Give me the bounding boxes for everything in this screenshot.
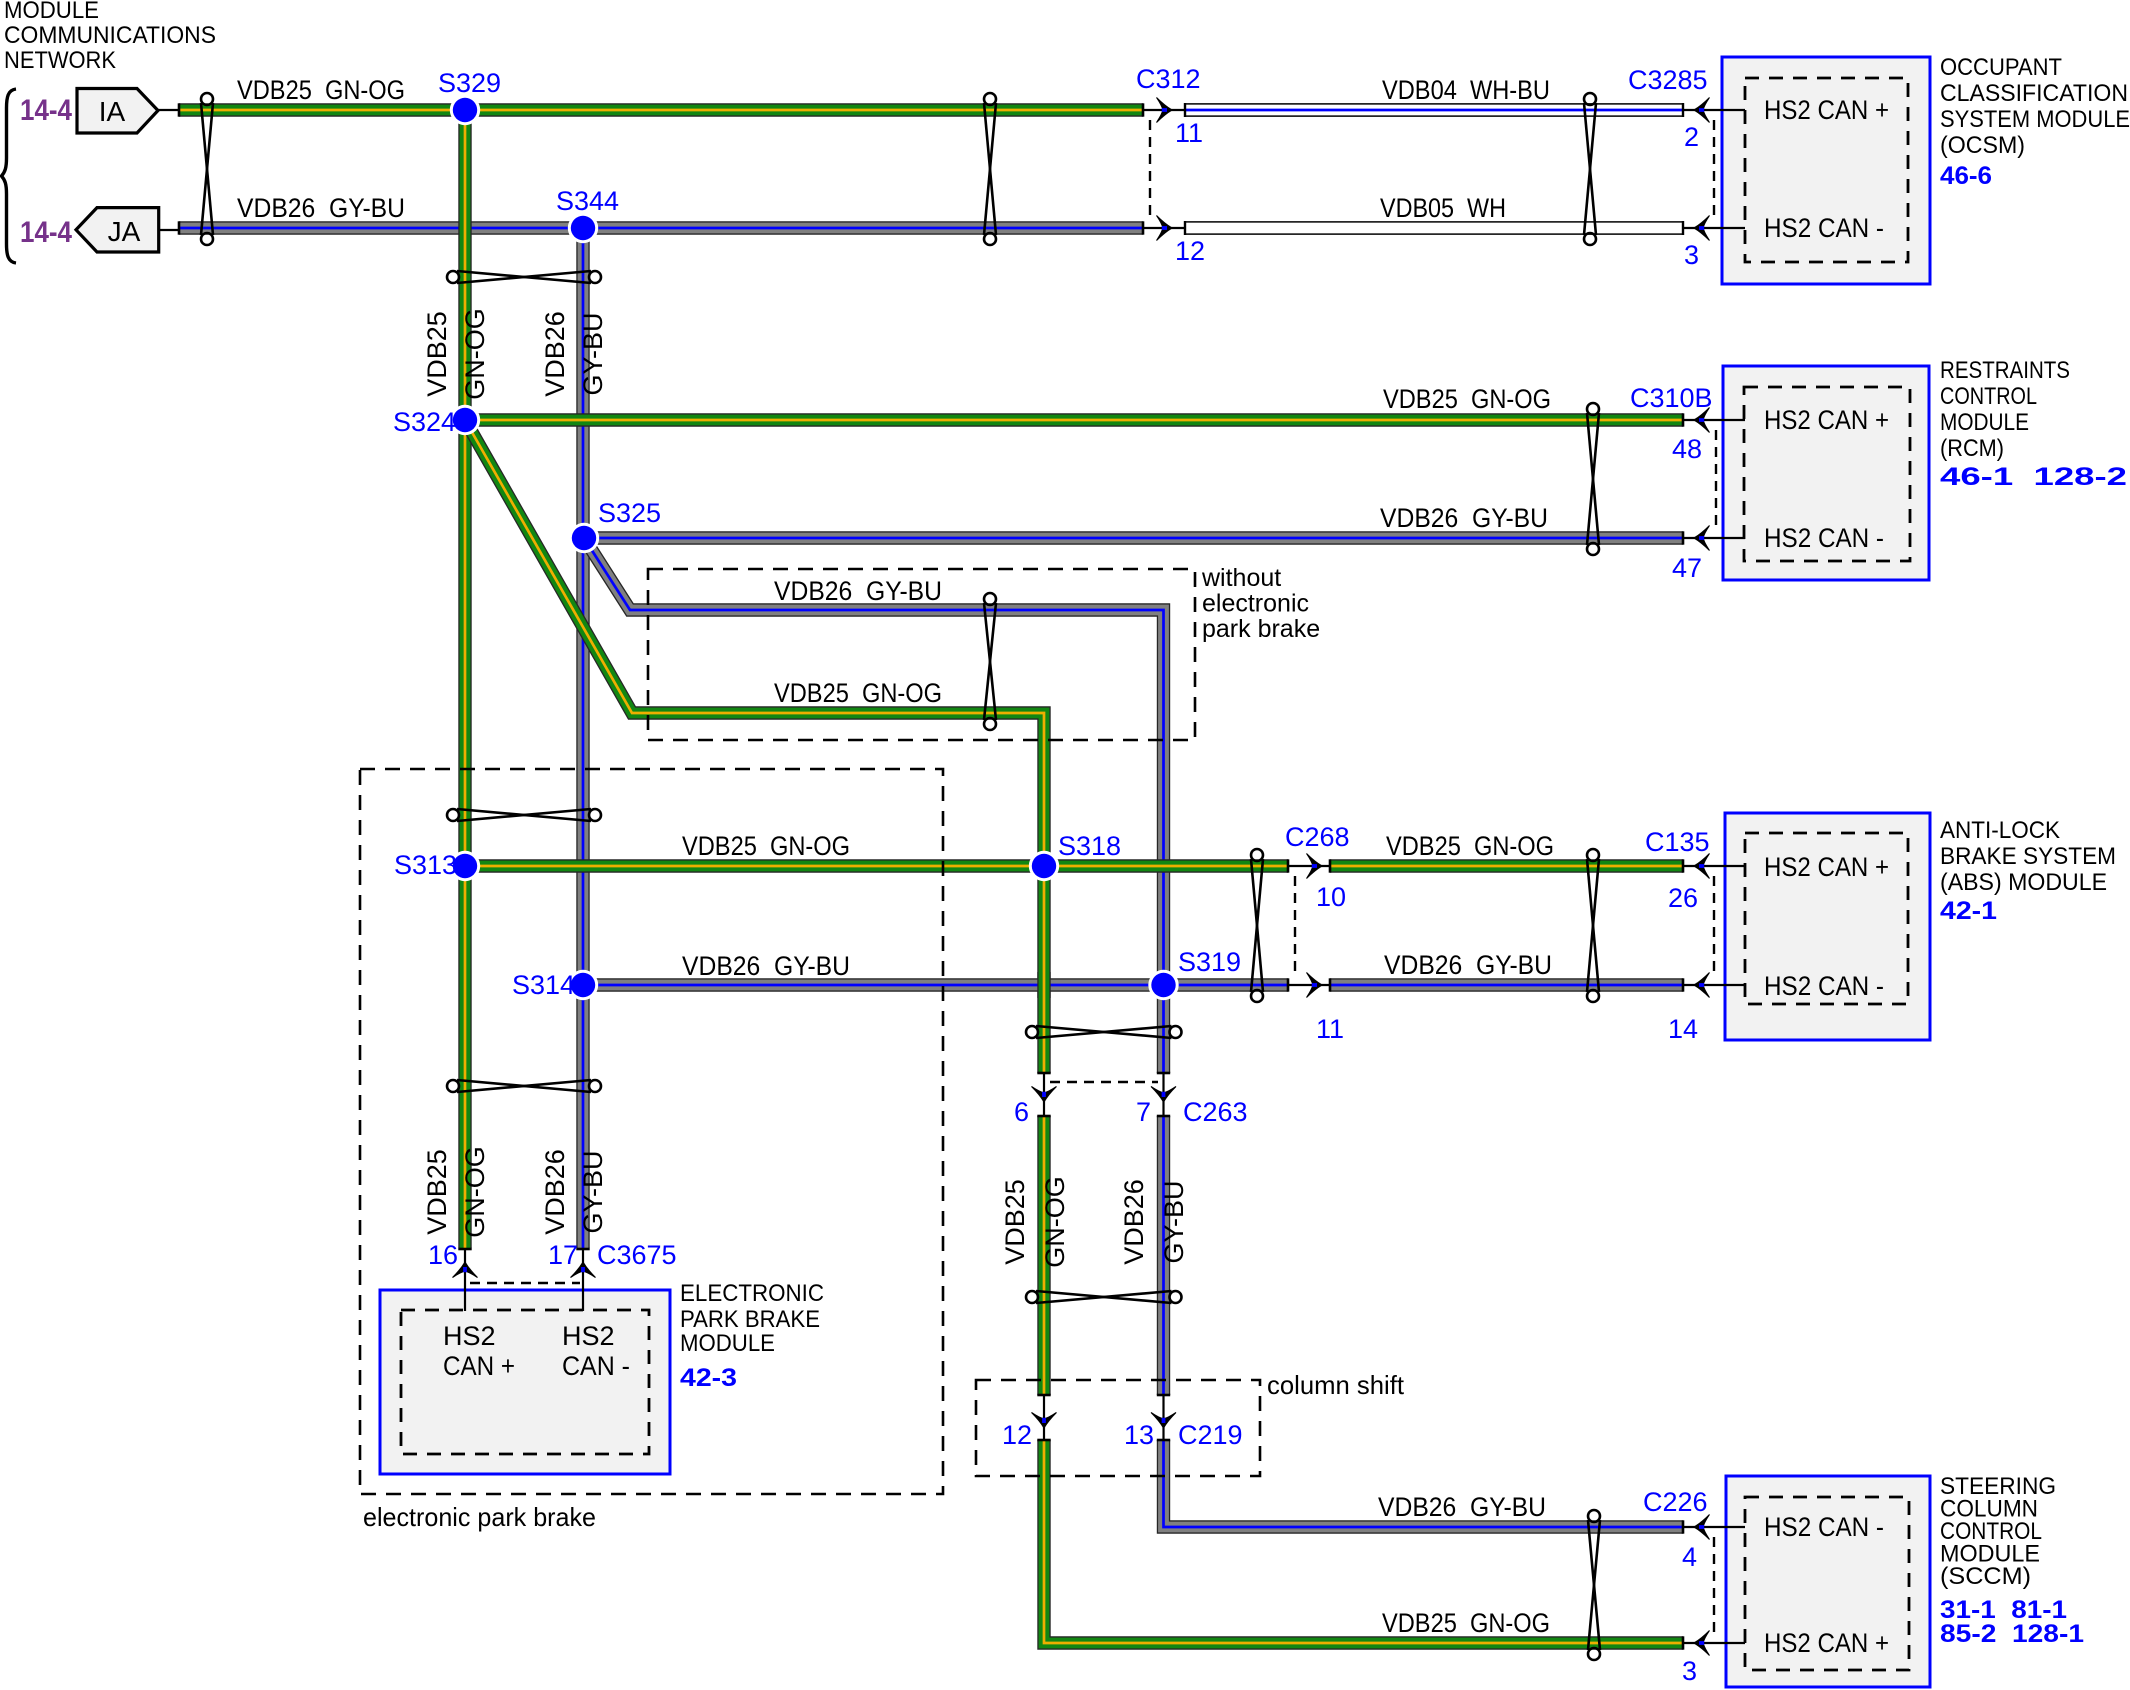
svg-text:VDB26 GY-BU: VDB26 GY-BU	[237, 193, 405, 223]
svg-text:MODULE: MODULE	[4, 0, 99, 24]
connector C263 dashed line	[1050, 1081, 1158, 1083]
connector C219 stub pin13	[1162, 1395, 1164, 1440]
svg-text:GN-OG: GN-OG	[460, 308, 490, 400]
svg-text:S325: S325	[598, 498, 661, 528]
page ref 14-4 (IA)	[20, 94, 72, 127]
pin 17 C3675	[548, 1240, 578, 1270]
label C310B	[1630, 383, 1713, 413]
wire VDB25 GN-OG vertical S329-pin16	[458, 110, 471, 1248]
label HS2 CAN - OCSM	[1764, 213, 1884, 243]
label VDB25 GN-OG RCM row	[1383, 384, 1551, 414]
svg-text:VDB25 GN-OG: VDB25 GN-OG	[1386, 831, 1554, 861]
dashed box column shift	[976, 1380, 1260, 1476]
label HS2 CAN + ABS	[1764, 852, 1889, 882]
label C263	[1183, 1097, 1248, 1127]
module ABS box	[1725, 813, 1930, 1040]
svg-text:HS2 CAN -: HS2 CAN -	[1764, 971, 1884, 1001]
svg-text:2: 2	[1684, 122, 1699, 152]
svg-text:S318: S318	[1058, 831, 1121, 861]
connector C268 arrow pin11	[1307, 973, 1323, 998]
svg-text:VDB26: VDB26	[540, 311, 570, 397]
label STEERING COLUMN CONTROL MODULE (SCCM)	[1940, 1473, 2056, 1590]
page ref 42-1	[1940, 897, 1997, 925]
label VDB26 GY-BU without-epb	[774, 576, 942, 606]
svg-text:VDB25: VDB25	[422, 1149, 452, 1235]
page ref 42-3	[680, 1364, 737, 1392]
svg-text:12: 12	[1002, 1420, 1032, 1450]
svg-text:C135: C135	[1645, 827, 1710, 857]
connector C3675 arrow pin17	[571, 1262, 596, 1278]
connector flag IA	[77, 89, 158, 134]
module EPB box	[380, 1290, 670, 1474]
svg-text:3: 3	[1682, 1656, 1697, 1686]
svg-text:11: 11	[1175, 118, 1203, 148]
label VDB25 GN-OG ABS row	[1386, 831, 1554, 861]
label VDB25 vertical top	[422, 311, 452, 397]
label VDB25 vertical mid	[1000, 1179, 1030, 1265]
connector C310B stub pin47	[1683, 537, 1745, 539]
connector C219 stub pin12	[1043, 1395, 1045, 1440]
connector C310B arrow pin48	[1694, 408, 1710, 433]
pin 14 C135	[1668, 1014, 1698, 1044]
connector C3285 dashed line	[1713, 120, 1715, 218]
wire VDB25 GN-OG crossing patch at S319 row	[1037, 972, 1050, 998]
connector C268 stub pin11	[1288, 984, 1330, 986]
label GN-OG vertical mid	[1040, 1176, 1070, 1268]
svg-text:GY-BU: GY-BU	[578, 312, 608, 395]
label VDB26 GY-BU RCM row	[1380, 503, 1548, 533]
svg-text:12: 12	[1175, 236, 1205, 266]
svg-text:17: 17	[548, 1240, 578, 1270]
svg-text:VDB26 GY-BU: VDB26 GY-BU	[774, 576, 942, 606]
svg-text:SYSTEM MODULE: SYSTEM MODULE	[1940, 106, 2130, 133]
svg-text:HS2 CAN -: HS2 CAN -	[1764, 213, 1884, 243]
label C268	[1285, 822, 1350, 852]
twisted pair VDB04/VDB05	[1584, 93, 1596, 245]
page ref 14-4 (JA)	[20, 216, 72, 249]
svg-text:C312: C312	[1136, 64, 1201, 94]
label C135	[1645, 827, 1710, 857]
svg-text:BRAKE SYSTEM: BRAKE SYSTEM	[1940, 843, 2116, 870]
label VDB25 GN-OG row1	[237, 75, 405, 105]
svg-text:S314: S314	[512, 970, 575, 1000]
connector C219 arrow pin12	[1032, 1413, 1057, 1429]
svg-text:VDB25: VDB25	[1000, 1179, 1030, 1265]
svg-text:42-1: 42-1	[1940, 897, 1997, 925]
connector C3285 stub pin2	[1683, 109, 1745, 111]
svg-text:VDB04 WH-BU: VDB04 WH-BU	[1382, 75, 1550, 105]
page ref 31-1 81-1	[1940, 1596, 2067, 1624]
wire VDB26 GY-BU C219 to SCCM	[1164, 1440, 1684, 1527]
svg-text:7: 7	[1136, 1097, 1151, 1127]
svg-text:10: 10	[1316, 882, 1346, 912]
svg-text:C263: C263	[1183, 1097, 1248, 1127]
twisted pair epb verticals upper	[447, 809, 601, 821]
connector C263 stub pin7	[1162, 1073, 1164, 1116]
connector C263 stub pin6	[1043, 1073, 1045, 1116]
svg-text:VDB26 GY-BU: VDB26 GY-BU	[1380, 503, 1548, 533]
svg-text:C268: C268	[1285, 822, 1350, 852]
svg-text:NETWORK: NETWORK	[4, 47, 116, 74]
label GY-BU vertical top	[578, 312, 608, 395]
svg-text:park brake: park brake	[1202, 615, 1320, 643]
pin 6 C263	[1014, 1097, 1029, 1127]
connector C268 arrow pin10	[1307, 854, 1323, 879]
page ref 46-6	[1940, 162, 1992, 190]
svg-text:14: 14	[1668, 1014, 1698, 1044]
connector C135 arrow pin14	[1694, 973, 1710, 998]
svg-text:VDB05 WH: VDB05 WH	[1380, 193, 1506, 223]
svg-text:13: 13	[1124, 1420, 1154, 1450]
svg-text:ANTI-LOCK: ANTI-LOCK	[1940, 817, 2060, 844]
connector flag JA	[76, 208, 159, 252]
splice S318	[1029, 831, 1121, 881]
label VDB04 WH-BU	[1382, 75, 1550, 105]
svg-text:MODULE: MODULE	[680, 1330, 775, 1357]
label HS2 CAN + OCSM	[1764, 95, 1889, 125]
twisted pair IA/JA	[201, 93, 213, 245]
wire VDB26 GY-BU S314 row after C268	[1330, 978, 1683, 991]
label ANTI-LOCK BRAKE SYSTEM (ABS) MODULE	[1940, 817, 2116, 896]
svg-text:S344: S344	[556, 186, 619, 216]
connector C310B dashed line	[1715, 430, 1717, 528]
svg-text:6: 6	[1014, 1097, 1029, 1127]
svg-text:VDB25 GN-OG: VDB25 GN-OG	[1382, 1608, 1550, 1638]
svg-text:42-3: 42-3	[680, 1364, 737, 1392]
label C226	[1643, 1487, 1708, 1517]
label VDB25 vertical epb	[422, 1149, 452, 1235]
wire VDB26 GY-BU S325 branch (without epb)	[584, 538, 1164, 1073]
svg-text:CLASSIFICATION: CLASSIFICATION	[1940, 80, 2128, 107]
svg-text:VDB25: VDB25	[422, 311, 452, 397]
module OCSM box	[1722, 57, 1930, 284]
twisted pair SCCM	[1588, 1510, 1600, 1660]
svg-text:16: 16	[428, 1240, 458, 1270]
connector C312 stub row2	[1143, 227, 1185, 229]
connector C226 stub pin3	[1683, 1642, 1745, 1644]
svg-text:IA: IA	[99, 96, 126, 127]
connector C226 arrow pin3	[1694, 1631, 1710, 1656]
wire VDB26 GY-BU S314 row	[583, 978, 1288, 991]
wire VDB26 GY-BU RCM row	[583, 531, 1683, 544]
pin 3 C3285	[1684, 240, 1699, 270]
label VDB25 GN-OG SCCM row	[1382, 1608, 1550, 1638]
twisted pair verticals below S329/S344	[447, 271, 601, 283]
svg-text:3: 3	[1684, 240, 1699, 270]
svg-text:ELECTRONIC: ELECTRONIC	[680, 1280, 824, 1307]
svg-text:C3675: C3675	[597, 1240, 677, 1270]
wire VDB04 WH-BU	[1185, 103, 1683, 117]
svg-text:without: without	[1201, 564, 1281, 592]
dashed box without electronic park brake	[648, 569, 1195, 740]
label VDB26 GY-BU row2	[237, 193, 405, 223]
left brace	[2, 89, 17, 263]
label VDB25 GN-OG without-epb	[774, 678, 942, 708]
svg-text:column shift: column shift	[1267, 1370, 1405, 1400]
svg-text:RESTRAINTS: RESTRAINTS	[1940, 357, 2070, 384]
connector C3675 stub pin17	[582, 1249, 584, 1311]
splice S314	[512, 970, 598, 1000]
svg-text:46-1 128-2: 46-1 128-2	[1940, 463, 2127, 491]
pin 26 C135	[1668, 883, 1698, 913]
label GN-OG vertical epb	[460, 1146, 490, 1238]
svg-text:MODULE: MODULE	[1940, 409, 2029, 436]
connector C135 stub pin14	[1683, 984, 1745, 986]
svg-text:PARK BRAKE: PARK BRAKE	[680, 1306, 820, 1333]
svg-text:VDB25 GN-OG: VDB25 GN-OG	[682, 831, 850, 861]
svg-text:46-6: 46-6	[1940, 162, 1992, 190]
label ELECTRONIC PARK BRAKE MODULE	[680, 1280, 824, 1357]
pin 10 C268	[1316, 882, 1346, 912]
label HS2 CAN - SCCM	[1764, 1512, 1884, 1542]
label column shift	[1267, 1370, 1405, 1400]
svg-text:C226: C226	[1643, 1487, 1708, 1517]
label C219	[1178, 1420, 1243, 1450]
pin 16 C3675	[428, 1240, 458, 1270]
pin 13 C219	[1124, 1420, 1154, 1450]
svg-text:VDB26 GY-BU: VDB26 GY-BU	[1384, 950, 1552, 980]
wire VDB25 GN-OG row1 horizontal	[179, 103, 1143, 116]
connector C312 dashed line	[1149, 120, 1151, 218]
svg-text:VDB26: VDB26	[1119, 1179, 1149, 1265]
label GY-BU vertical mid	[1159, 1180, 1189, 1263]
twisted pair before C312	[984, 93, 996, 245]
twisted pair RCM	[1587, 403, 1599, 555]
label VDB26 vertical epb	[540, 1149, 570, 1235]
label HS2 CAN - ABS	[1764, 971, 1884, 1001]
connector C226 dashed line	[1713, 1537, 1715, 1633]
connector C3285 arrow pin3	[1694, 216, 1710, 241]
connector C3675 dashed line	[470, 1282, 580, 1284]
svg-text:electronic park brake: electronic park brake	[363, 1502, 596, 1532]
wire stub JA to VDB26	[159, 229, 180, 231]
svg-text:(OCSM): (OCSM)	[1940, 132, 2025, 159]
svg-text:C3285: C3285	[1628, 65, 1708, 95]
title MODULE COMMUNICATIONS NETWORK	[4, 0, 216, 74]
label HS2 CAN + RCM	[1764, 405, 1889, 435]
svg-text:26: 26	[1668, 883, 1698, 913]
connector C3285 stub pin3	[1683, 227, 1745, 229]
wire VDB25 GN-OG vertical C263-C219	[1037, 1116, 1050, 1395]
svg-text:JA: JA	[108, 216, 141, 247]
twisted pair above C263	[1026, 1026, 1182, 1038]
pin 2 C3285	[1684, 122, 1699, 152]
label VDB26 GY-BU ABS row	[1384, 950, 1552, 980]
svg-text:CAN -: CAN -	[562, 1351, 630, 1381]
svg-text:S329: S329	[438, 68, 501, 98]
label VDB25 GN-OG S313 row	[682, 831, 850, 861]
connector C226 stub pin4	[1683, 1526, 1745, 1528]
twisted pair without-epb	[984, 593, 996, 730]
label GN-OG vertical top	[460, 308, 490, 400]
label VDB26 GY-BU SCCM row	[1378, 1492, 1546, 1522]
svg-text:S319: S319	[1178, 947, 1241, 977]
svg-text:S324: S324	[393, 407, 456, 437]
page ref 85-2 128-1	[1940, 1620, 2084, 1648]
svg-text:14-4: 14-4	[20, 216, 72, 249]
label HS2 CAN + SCCM	[1764, 1628, 1889, 1658]
connector C135 stub pin26	[1683, 865, 1745, 867]
wire stub IA to VDB25	[158, 109, 180, 111]
svg-text:HS2 CAN +: HS2 CAN +	[1764, 405, 1889, 435]
dashed box electronic park brake	[360, 769, 943, 1494]
wire VDB26 GY-BU vertical C263-C219	[1157, 1116, 1170, 1395]
svg-text:VDB26 GY-BU: VDB26 GY-BU	[1378, 1492, 1546, 1522]
label electronic park brake	[363, 1502, 596, 1532]
splice S319	[1148, 947, 1241, 1000]
wire VDB26 GY-BU vertical S344-pin17	[576, 228, 589, 1248]
connector C312 arrow row2	[1157, 216, 1173, 241]
connector C219 arrow pin13	[1151, 1413, 1176, 1429]
label HS2 CAN - EPB	[562, 1321, 630, 1381]
svg-text:HS2 CAN +: HS2 CAN +	[1764, 1628, 1889, 1658]
svg-text:48: 48	[1672, 434, 1702, 464]
svg-text:(RCM): (RCM)	[1940, 435, 2004, 462]
svg-text:CAN +: CAN +	[443, 1351, 515, 1381]
svg-text:(ABS) MODULE: (ABS) MODULE	[1940, 869, 2107, 896]
label HS2 CAN + EPB	[443, 1321, 515, 1381]
svg-text:OCCUPANT: OCCUPANT	[1940, 54, 2062, 81]
wire VDB26 GY-BU row2 horizontal	[179, 221, 1143, 234]
svg-text:GY-BU: GY-BU	[578, 1150, 608, 1233]
pin 47 C310B	[1672, 553, 1702, 583]
page ref 46-1 128-2	[1940, 463, 2127, 491]
label HS2 CAN - RCM	[1764, 523, 1884, 553]
wire VDB25 GN-OG S324 branch diagonal	[465, 420, 1044, 1073]
wire VDB25 GN-OG S313 row after C268	[1330, 859, 1683, 872]
svg-text:electronic: electronic	[1202, 590, 1309, 618]
svg-text:HS2 CAN -: HS2 CAN -	[1764, 523, 1884, 553]
svg-text:GN-OG: GN-OG	[460, 1146, 490, 1238]
svg-text:47: 47	[1672, 553, 1702, 583]
svg-text:GY-BU: GY-BU	[1159, 1180, 1189, 1263]
svg-text:HS2 CAN -: HS2 CAN -	[1764, 1512, 1884, 1542]
svg-text:HS2: HS2	[443, 1321, 496, 1351]
connector C3675 arrow pin16	[453, 1262, 478, 1278]
module RCM box	[1723, 366, 1929, 580]
connector C268 stub pin10	[1288, 865, 1330, 867]
wire VDB25 GN-OG S313 row	[465, 859, 1288, 872]
splice S324	[393, 405, 480, 437]
pin 48 C310B	[1672, 434, 1702, 464]
svg-text:CONTROL: CONTROL	[1940, 383, 2037, 410]
label VDB26 GY-BU S314 row	[682, 951, 850, 981]
splice S313	[394, 850, 480, 881]
connector C263 arrow pin7	[1151, 1087, 1176, 1103]
svg-text:C310B: C310B	[1630, 383, 1713, 413]
label C312	[1136, 64, 1201, 94]
splice S344	[556, 186, 619, 243]
svg-text:S313: S313	[394, 850, 457, 880]
svg-text:11: 11	[1316, 1014, 1344, 1044]
pin 12 C219	[1002, 1420, 1032, 1450]
label RESTRAINTS CONTROL MODULE (RCM)	[1940, 357, 2070, 462]
pin 11 C312	[1175, 118, 1203, 148]
connector C226 arrow pin4	[1694, 1515, 1710, 1540]
connector C3675 stub pin16	[464, 1249, 466, 1311]
connector C310B stub pin48	[1683, 419, 1745, 421]
connector C268 dashed line	[1294, 876, 1296, 975]
module SCCM box	[1726, 1476, 1930, 1687]
svg-text:HS2: HS2	[562, 1321, 615, 1351]
svg-text:GN-OG: GN-OG	[1040, 1176, 1070, 1268]
pin 3 C226	[1682, 1656, 1697, 1686]
twisted pair below C263	[1026, 1291, 1182, 1303]
svg-text:HS2 CAN +: HS2 CAN +	[1764, 95, 1889, 125]
connector C3285 arrow pin2	[1694, 98, 1710, 123]
connector C310B arrow pin47	[1694, 526, 1710, 551]
svg-text:4: 4	[1682, 1542, 1697, 1572]
svg-text:VDB25 GN-OG: VDB25 GN-OG	[237, 75, 405, 105]
connector C312 arrow row1	[1157, 98, 1173, 123]
label GY-BU vertical epb	[578, 1150, 608, 1233]
svg-text:VDB26: VDB26	[540, 1149, 570, 1235]
label C3675	[597, 1240, 677, 1270]
svg-text:85-2 128-1: 85-2 128-1	[1940, 1620, 2084, 1648]
splice S329	[438, 68, 501, 125]
twisted pair before C135	[1587, 849, 1599, 1002]
svg-text:C219: C219	[1178, 1420, 1243, 1450]
connector C135 arrow pin26	[1694, 854, 1710, 879]
label VDB26 vertical mid	[1119, 1179, 1149, 1265]
connector C135 dashed line	[1713, 876, 1715, 975]
pin 11 C268	[1316, 1014, 1344, 1044]
wire VDB05 WH	[1185, 221, 1683, 235]
label C3285	[1628, 65, 1708, 95]
svg-text:VDB25 GN-OG: VDB25 GN-OG	[774, 678, 942, 708]
svg-text:14-4: 14-4	[20, 94, 72, 127]
connector C312 stub row1	[1143, 109, 1185, 111]
twisted pair epb verticals lower	[447, 1080, 601, 1092]
wire VDB25 GN-OG RCM row	[465, 413, 1683, 426]
label OCCUPANT CLASSIFICATION SYSTEM MODULE (OCSM)	[1940, 54, 2130, 159]
pin 4 C226	[1682, 1542, 1697, 1572]
label VDB05 WH	[1380, 193, 1506, 223]
pin 12 C312	[1175, 236, 1205, 266]
label VDB26 vertical top	[540, 311, 570, 397]
label without electronic park brake	[1201, 564, 1320, 643]
splice S325	[569, 498, 661, 553]
svg-text:(SCCM): (SCCM)	[1940, 1563, 2031, 1590]
pin 7 C263	[1136, 1097, 1151, 1127]
wire end caps	[179, 103, 1683, 1649]
svg-text:VDB25 GN-OG: VDB25 GN-OG	[1383, 384, 1551, 414]
thin wire end caps	[1185, 103, 1683, 235]
twisted pair before C268	[1251, 849, 1263, 1002]
wire VDB25 GN-OG C219 to SCCM	[1044, 1440, 1683, 1643]
connector C263 arrow pin6	[1032, 1087, 1057, 1103]
svg-text:COMMUNICATIONS: COMMUNICATIONS	[4, 22, 216, 49]
svg-text:HS2 CAN +: HS2 CAN +	[1764, 852, 1889, 882]
svg-text:VDB26 GY-BU: VDB26 GY-BU	[682, 951, 850, 981]
